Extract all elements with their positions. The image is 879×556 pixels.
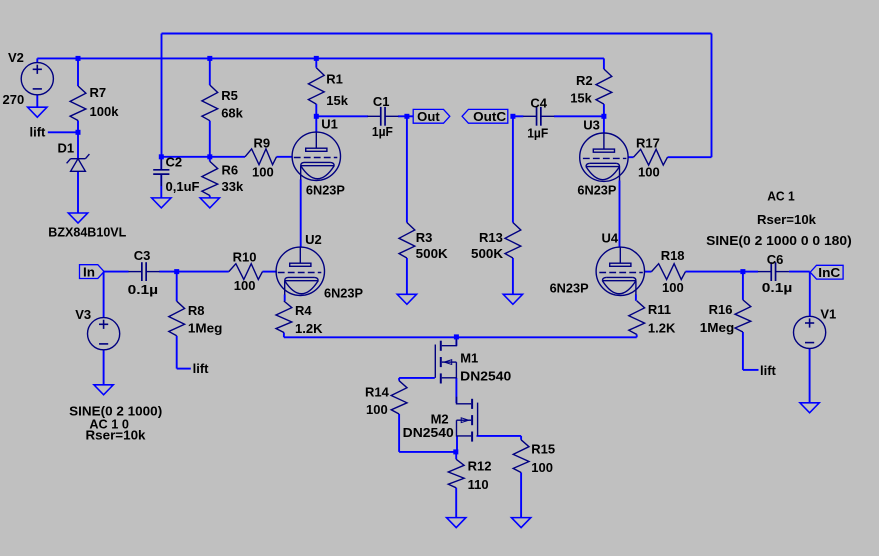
resistor R4 xyxy=(276,301,323,336)
wire C4 to R2 xyxy=(554,115,604,117)
svg-text:1µF: 1µF xyxy=(527,126,548,141)
wire R3 top xyxy=(406,116,408,222)
wire R8 lift stub xyxy=(177,368,191,370)
resistor R18 xyxy=(652,248,686,295)
svg-text:U4: U4 xyxy=(602,231,619,246)
resistor R6 xyxy=(202,161,244,195)
svg-text:R6: R6 xyxy=(222,163,239,178)
wire OutC to C4 xyxy=(513,115,524,117)
svg-text:R5: R5 xyxy=(221,88,238,103)
wire R8 top xyxy=(176,272,178,302)
junction C2 top xyxy=(159,154,164,159)
svg-text:100: 100 xyxy=(662,280,684,295)
svg-text:R8: R8 xyxy=(188,303,205,318)
wire Out stub xyxy=(407,115,413,117)
wire R7 bottom xyxy=(77,121,79,133)
wire U3 grid to R17 xyxy=(628,156,634,158)
junction Out node xyxy=(404,114,409,119)
wire U1 plate xyxy=(315,116,317,132)
svg-text:R4: R4 xyxy=(295,303,312,318)
wire B+ rail xyxy=(37,57,604,59)
resistor R2 xyxy=(570,69,612,106)
zener diode D1 xyxy=(48,141,126,240)
SpiceLine of V1 SINE xyxy=(706,233,852,248)
ground R3 xyxy=(397,294,416,304)
wire V1 bottom xyxy=(809,348,811,402)
ground C2 xyxy=(152,198,171,208)
wire R16 bottom xyxy=(742,332,744,370)
wire R8 bottom xyxy=(176,336,178,369)
ground R13 xyxy=(503,294,522,304)
svg-text:C4: C4 xyxy=(530,96,547,111)
wire R9 right xyxy=(277,156,293,158)
wire D1 top xyxy=(77,132,79,158)
svg-text:Out: Out xyxy=(417,109,440,124)
ground R12 xyxy=(447,518,466,528)
wire R3 bottom xyxy=(406,258,408,294)
svg-text:D1: D1 xyxy=(58,141,75,156)
SpiceLine of V3 line2 xyxy=(89,416,128,431)
port flag OutC xyxy=(462,109,508,124)
junction lift/D1 xyxy=(76,130,81,135)
wire U1 cathode to U2 plate xyxy=(300,179,302,247)
wire C1 right xyxy=(398,115,407,117)
svg-text:C3: C3 xyxy=(134,248,151,263)
port flag InC xyxy=(810,265,843,280)
junction R7 top xyxy=(76,56,81,61)
wire node to R10 xyxy=(177,271,229,273)
svg-text:R18: R18 xyxy=(661,248,685,263)
SpiceLine of V1 Rser xyxy=(757,212,817,227)
ground R6 xyxy=(200,198,219,208)
svg-text:Rser=10k: Rser=10k xyxy=(86,427,147,442)
capacitor C6 xyxy=(758,252,792,295)
svg-text:R9: R9 xyxy=(254,135,271,150)
wire V3 top xyxy=(103,272,105,318)
svg-text:1.2K: 1.2K xyxy=(295,321,323,336)
svg-text:6N23P: 6N23P xyxy=(577,182,616,197)
wire R6 bottom xyxy=(209,196,211,198)
svg-text:lift: lift xyxy=(30,125,47,140)
svg-text:R2: R2 xyxy=(576,73,593,88)
triode U3 xyxy=(577,118,628,198)
resistor R16 xyxy=(700,300,751,335)
triode U4 xyxy=(550,231,645,296)
wire M2 gate xyxy=(477,435,522,437)
junction M1 drain xyxy=(454,334,459,339)
wire right feedback drop xyxy=(711,34,713,158)
wire R17 to feedback xyxy=(668,156,712,158)
wire C3 to node xyxy=(159,271,177,273)
resistor R5 xyxy=(202,85,244,121)
value label 270 of V2 xyxy=(3,92,25,107)
svg-text:1Meg: 1Meg xyxy=(700,320,735,335)
svg-text:DN2540: DN2540 xyxy=(403,425,454,440)
svg-text:BZX84B10VL: BZX84B10VL xyxy=(48,224,126,239)
svg-text:U1: U1 xyxy=(321,116,338,131)
svg-text:OutC: OutC xyxy=(473,109,507,124)
svg-text:100: 100 xyxy=(366,402,388,417)
svg-text:InC: InC xyxy=(818,265,841,280)
wire R14 to junction xyxy=(399,451,456,453)
resistor R14 xyxy=(365,381,407,417)
wire lift to R7 xyxy=(48,131,78,133)
wire R1 bottom xyxy=(315,104,317,116)
svg-text:M1: M1 xyxy=(460,350,478,365)
wire R2 bottom xyxy=(603,104,605,116)
wire C2 bottom xyxy=(160,174,162,198)
wire In to C3 xyxy=(104,271,129,273)
svg-text:C2: C2 xyxy=(166,155,183,170)
svg-text:100: 100 xyxy=(531,460,553,475)
transistor M2 xyxy=(403,397,478,442)
svg-text:1µF: 1µF xyxy=(372,124,393,139)
voltage source V3 xyxy=(75,307,120,350)
wire C1 left xyxy=(316,115,368,117)
wire R2 top xyxy=(603,58,605,69)
resistor R1 xyxy=(308,68,348,108)
wire C2 node xyxy=(161,156,210,158)
svg-text:68k: 68k xyxy=(221,106,243,121)
wire C6 right xyxy=(789,271,810,273)
resistor R11 xyxy=(629,301,676,336)
wire R15 bottom xyxy=(520,473,522,518)
SpiceLine of V1 AC xyxy=(767,189,795,204)
svg-text:lift: lift xyxy=(760,363,777,378)
wire R7 top xyxy=(77,58,79,86)
wire R16 top xyxy=(742,272,744,300)
svg-text:6N23P: 6N23P xyxy=(550,281,589,296)
svg-text:100: 100 xyxy=(234,278,256,293)
svg-text:0.1µ: 0.1µ xyxy=(128,282,158,297)
ground V2 xyxy=(28,107,47,117)
svg-text:SINE(0 2 1000 0 0 180): SINE(0 2 1000 0 0 180) xyxy=(706,233,852,248)
svg-text:V3: V3 xyxy=(75,307,91,322)
wire R5 top xyxy=(209,58,211,85)
svg-text:U3: U3 xyxy=(583,118,600,133)
wire left feedback drop xyxy=(161,34,163,157)
port flag Out xyxy=(413,109,450,124)
wire R13 top xyxy=(512,116,514,222)
wire R13 bottom xyxy=(512,258,514,294)
wire R14 bottom xyxy=(398,414,400,452)
svg-text:V1: V1 xyxy=(820,307,836,322)
wire R16 lift stub xyxy=(743,369,759,371)
svg-text:270: 270 xyxy=(3,92,25,107)
wire U4 cathode to R11 xyxy=(635,295,637,301)
resistor R13 xyxy=(471,223,521,262)
wire R15 top xyxy=(520,436,522,440)
net label lift (under R8) xyxy=(193,361,210,376)
wire R5 bottom xyxy=(209,121,211,157)
resistor R10 xyxy=(229,249,263,293)
junction U3 plate xyxy=(601,114,606,119)
svg-text:15k: 15k xyxy=(570,91,592,106)
wire V3 bottom xyxy=(103,350,105,385)
svg-text:R1: R1 xyxy=(326,72,343,87)
port flag In xyxy=(80,264,105,279)
ground V1 xyxy=(800,403,819,413)
wire R12 bottom xyxy=(455,488,457,518)
svg-text:15k: 15k xyxy=(326,93,348,108)
svg-text:C6: C6 xyxy=(767,252,784,267)
ground V3 xyxy=(94,385,113,395)
resistor R9 xyxy=(245,135,277,179)
SpiceLine of V3 line3 xyxy=(86,427,147,442)
wire R12 top xyxy=(455,452,457,459)
resistor R3 xyxy=(399,223,448,262)
svg-text:R13: R13 xyxy=(479,230,503,245)
wire V2 bottom xyxy=(36,95,38,107)
svg-text:In: In xyxy=(83,264,95,279)
svg-text:R12: R12 xyxy=(468,459,492,474)
wire M1 drain xyxy=(455,337,457,346)
junction OutC node xyxy=(510,114,515,119)
svg-text:0,1uF: 0,1uF xyxy=(166,179,200,194)
svg-text:R16: R16 xyxy=(709,302,733,317)
svg-text:R11: R11 xyxy=(648,302,671,317)
capacitor C1 xyxy=(367,94,398,139)
wire D1 bottom xyxy=(77,171,79,213)
wire top feedback rail xyxy=(162,33,712,35)
wire R1 top xyxy=(315,58,317,67)
wire R9 left xyxy=(210,156,245,158)
svg-text:R15: R15 xyxy=(531,442,555,457)
wire U2 grid xyxy=(263,271,277,273)
svg-text:DN2540: DN2540 xyxy=(460,369,511,384)
svg-text:U2: U2 xyxy=(305,232,322,247)
wire U4 grid xyxy=(644,271,651,273)
junction R6 top xyxy=(207,154,212,159)
wire cathode rail xyxy=(284,336,637,338)
svg-text:R3: R3 xyxy=(416,230,433,245)
svg-text:R7: R7 xyxy=(90,85,107,100)
junction In node xyxy=(174,269,179,274)
capacitor C2 xyxy=(153,155,199,195)
svg-text:100: 100 xyxy=(638,165,660,180)
wire R6 top xyxy=(209,157,211,162)
junction R5 top xyxy=(207,56,212,61)
svg-text:R10: R10 xyxy=(233,249,257,264)
capacitor C4 xyxy=(523,96,554,141)
resistor R12 xyxy=(448,459,491,492)
svg-text:110: 110 xyxy=(468,477,489,492)
wire C2 top xyxy=(160,157,162,170)
svg-text:R14: R14 xyxy=(365,385,390,400)
SpiceLine of V3 line1 xyxy=(69,404,162,419)
ground R15 xyxy=(511,518,530,528)
wire R18 right xyxy=(686,271,743,273)
svg-text:100: 100 xyxy=(252,164,274,179)
svg-text:6N23P: 6N23P xyxy=(306,182,345,197)
svg-text:100k: 100k xyxy=(90,104,120,119)
svg-text:V2: V2 xyxy=(8,50,24,65)
wire R4 bottom xyxy=(283,333,285,338)
wire M1 source to M2 drain xyxy=(455,378,457,403)
wire R11 bottom xyxy=(636,334,638,337)
svg-text:AC 1: AC 1 xyxy=(767,189,795,204)
triode U1 xyxy=(292,116,345,197)
wire R14 top xyxy=(398,378,400,381)
junction InC node xyxy=(740,269,745,274)
resistor R15 xyxy=(513,440,555,475)
svg-text:1.2K: 1.2K xyxy=(648,320,676,335)
svg-text:C1: C1 xyxy=(373,94,390,109)
voltage source V2 xyxy=(8,50,53,95)
wire M2 source xyxy=(456,436,458,452)
svg-text:Rser=10k: Rser=10k xyxy=(757,212,817,227)
voltage source V1 xyxy=(794,307,837,349)
triode U2 xyxy=(276,232,363,300)
wire U2 cathode to R4 xyxy=(284,295,286,302)
svg-text:33k: 33k xyxy=(222,179,244,194)
svg-text:500K: 500K xyxy=(471,246,504,261)
svg-text:lift: lift xyxy=(193,361,210,376)
wire C6 left xyxy=(743,271,758,273)
net label lift (under R16) xyxy=(760,363,777,378)
wire M1 gate xyxy=(399,377,435,379)
resistor R7 xyxy=(70,85,119,121)
wire U3 plate xyxy=(603,116,605,133)
wire U3 cathode to U4 plate xyxy=(619,181,621,248)
svg-text:6N23P: 6N23P xyxy=(324,285,363,300)
svg-text:500K: 500K xyxy=(416,246,449,261)
resistor R17 xyxy=(634,135,668,179)
net label lift (left) xyxy=(30,125,47,140)
capacitor C3 xyxy=(128,248,160,297)
svg-text:0.1µ: 0.1µ xyxy=(762,280,793,295)
resistor R8 xyxy=(169,301,223,336)
junction M2 source xyxy=(453,449,458,454)
wire InC down xyxy=(809,272,811,316)
svg-text:R17: R17 xyxy=(636,135,660,150)
junction R1 top xyxy=(314,56,319,61)
svg-text:1Meg: 1Meg xyxy=(188,321,223,336)
ground D1 xyxy=(68,213,87,223)
transistor M1 xyxy=(435,339,511,384)
junction U1 plate xyxy=(314,114,319,119)
wire V2 top xyxy=(36,58,38,62)
